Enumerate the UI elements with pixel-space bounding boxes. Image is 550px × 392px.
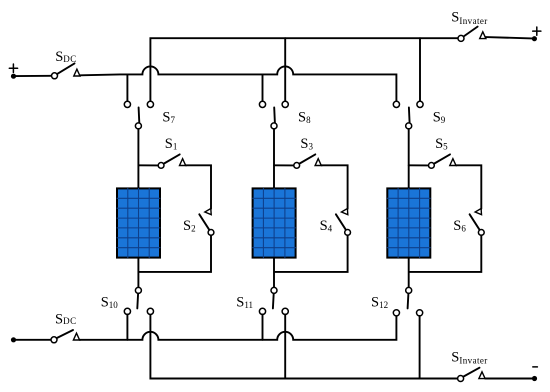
wire: string 3 positive lead — [408, 129, 410, 189]
wire bus: negative DC-link bus (lower middle, y=339.8) — [80, 316, 397, 340]
wire — [16, 75, 51, 77]
connector S10 plug — [135, 287, 141, 293]
switch S5 — [409, 154, 456, 168]
connector S12 plug — [406, 287, 412, 293]
connector S8 right socket — [282, 101, 288, 107]
wire — [486, 37, 532, 38]
wire: bypass branch bottom — [410, 235, 482, 272]
wire: drop from top bus to connector S8 right terminal — [284, 38, 286, 101]
wire: string 1 negative lead — [137, 258, 139, 288]
connector S7 right socket — [147, 101, 153, 107]
connector S11 plug lead — [272, 294, 275, 309]
connector S9 plug — [406, 123, 412, 129]
wire: string 2 positive lead — [273, 129, 275, 189]
connector S9 plug lead — [408, 108, 411, 123]
switch S1 — [138, 154, 185, 168]
node DC+ terminal (top left) — [11, 74, 16, 79]
PV module 3 — [387, 188, 430, 257]
connector S10 left socket — [124, 308, 130, 314]
connector S8 plug — [271, 123, 277, 129]
connector S9 left socket — [393, 101, 399, 107]
connector S7 plug lead — [138, 108, 141, 123]
wire: drop from DC+ bus to connector S7 left terminal — [126, 74, 128, 101]
switch S_Invater (top) — [458, 27, 486, 42]
wire: S10 left socket to DC- bus — [126, 315, 128, 340]
wire: bypass branch top — [456, 165, 481, 209]
connector S11 plug — [271, 287, 277, 293]
wire: S11 left socket to DC- bus — [262, 315, 264, 340]
switch S3 — [274, 154, 321, 168]
connector S7 plug — [135, 123, 141, 129]
connector S12 right socket — [417, 310, 423, 316]
PV module 1 — [117, 188, 160, 257]
node inverter - terminal (bottom right) — [532, 376, 537, 381]
wire: bypass branch top — [321, 165, 347, 209]
switch S4 — [336, 209, 351, 236]
wire: S12 right socket to bottom bus — [419, 316, 421, 379]
connector S12 left socket — [393, 310, 399, 316]
switch S2 — [199, 209, 214, 236]
wire: drop from top bus to connector S9 right terminal — [419, 38, 421, 101]
wire: S11 right socket to bottom bus — [284, 315, 286, 379]
connector S10 plug lead — [136, 294, 139, 309]
switch S_DC (bottom) — [51, 330, 80, 343]
connector S12 plug lead — [407, 294, 410, 309]
connector S8 left socket — [259, 101, 265, 107]
node DC- terminal (bottom left) — [11, 337, 16, 342]
wire: bypass branch bottom — [139, 235, 211, 272]
wire bus: positive DC-link bus (upper middle, y=74.4) — [80, 66, 396, 101]
wire: bypass branch bottom — [275, 235, 348, 272]
label - (negative) — [533, 366, 538, 368]
node inverter + terminal (top right) — [532, 36, 537, 41]
label + (positive) — [9, 64, 17, 72]
wire: bypass branch top — [186, 165, 211, 209]
wire: drop from DC+ bus to connector S8 left terminal — [262, 74, 264, 101]
wire — [16, 339, 51, 341]
connector S11 left socket — [259, 308, 265, 314]
connector S7 left socket — [124, 101, 130, 107]
wire bus: top bus to inverter (y=38.2) — [150, 38, 458, 101]
connector S8 plug lead — [273, 108, 276, 123]
wire bus: bottom bus to inverter (y=378.5) — [150, 315, 457, 379]
switch S_Invater (bottom) — [458, 368, 486, 382]
PV module 2 — [253, 188, 296, 257]
wire: string 3 negative lead — [408, 258, 410, 288]
switch S6 — [470, 209, 485, 236]
wire — [485, 378, 532, 380]
label + (positive) — [533, 27, 541, 35]
wire: string 1 positive lead — [137, 129, 139, 189]
switch S_DC (top) — [52, 63, 81, 78]
connector S11 right socket — [282, 308, 288, 314]
connector S9 right socket — [417, 101, 423, 107]
wire: string 2 negative lead — [273, 258, 275, 288]
connector S10 right socket — [147, 308, 153, 314]
